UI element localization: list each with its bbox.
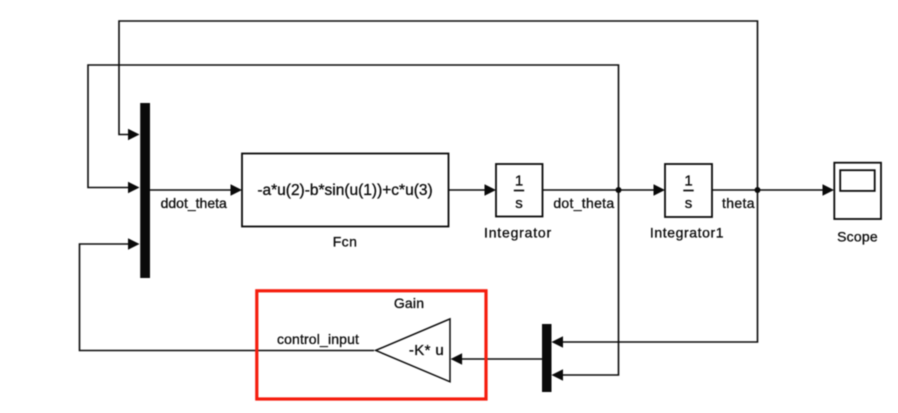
wire Integrator to Integrator1: [543, 189, 657, 191]
wire theta feedback (top loop): [119, 21, 758, 190]
arrowhead into Mux input 3: [128, 238, 140, 250]
arrowhead into Integrator: [485, 184, 497, 196]
wire Mux output to Fcn: [150, 189, 233, 191]
arrowhead into Gain: [451, 353, 463, 365]
block Integrator: [496, 164, 543, 217]
fraction bar Integrator: [514, 190, 524, 192]
junction node theta: [755, 187, 761, 193]
svg-text:1: 1: [684, 173, 692, 190]
scope screen: [840, 170, 875, 191]
fraction bar Integrator1: [683, 190, 693, 192]
svg-text:Scope: Scope: [837, 229, 878, 245]
wire theta branch down to Mux1 input: [560, 190, 758, 342]
svg-text:control_input: control_input: [277, 331, 359, 347]
wire Fcn to Integrator: [449, 189, 488, 191]
wire control_input feedback: [80, 244, 375, 351]
svg-text:s: s: [515, 195, 523, 212]
block Scope: [834, 163, 881, 219]
svg-text:Integrator: Integrator: [484, 225, 552, 241]
gain Gain (triangle): [376, 319, 450, 382]
svg-text:1: 1: [515, 173, 523, 190]
svg-text:-a*u(2)-b*sin(u(1))+c*u(3): -a*u(2)-b*sin(u(1))+c*u(3): [257, 182, 432, 199]
svg-text:Gain: Gain: [394, 295, 424, 311]
junction node dot_theta: [616, 187, 622, 193]
svg-text:theta: theta: [722, 195, 755, 211]
wire dot_theta feedback (second loop): [88, 65, 619, 190]
wire dot_theta branch down to Mux1 input: [560, 190, 619, 375]
svg-text:Integrator1: Integrator1: [650, 225, 724, 241]
block Fcn: [242, 154, 449, 227]
wire Mux1 output to Gain: [460, 358, 542, 360]
arrowhead into Scope: [823, 184, 835, 196]
svg-text:-K* u: -K* u: [409, 342, 444, 359]
highlight box (red) around Gain: [257, 291, 486, 399]
arrowhead into Mux input 1: [128, 129, 140, 141]
svg-text:s: s: [685, 195, 693, 212]
arrowhead into Integrator1: [654, 184, 666, 196]
block Integrator1: [665, 164, 712, 217]
svg-text:Fcn: Fcn: [333, 234, 358, 250]
mux Mux1 (bottom right): [542, 324, 552, 392]
arrowhead into Mux1 bottom input: [552, 369, 564, 381]
wire Integrator1 to Scope: [712, 189, 825, 191]
svg-text:ddot_theta: ddot_theta: [161, 195, 227, 211]
svg-text:dot_theta: dot_theta: [553, 195, 614, 211]
arrowhead into Mux1 top input: [552, 336, 564, 348]
mux Mux (left): [140, 103, 150, 278]
arrowhead into Mux input 2: [128, 182, 140, 194]
arrowhead into Fcn: [231, 184, 243, 196]
